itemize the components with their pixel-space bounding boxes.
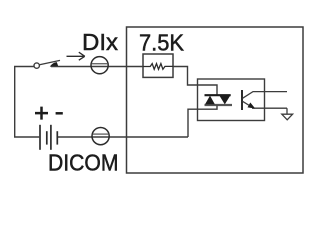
drive unit enclosure box	[127, 27, 304, 173]
wire: switch to resistor (through DIx terminal)	[51, 66, 143, 68]
battery polarity -	[56, 112, 63, 115]
wire: bottom row battery to junction (through DICOM terminal)	[57, 136, 188, 138]
phototransistor Q1 base bar	[241, 90, 243, 110]
LED pair bottom rail	[205, 104, 233, 106]
LED pair top rail	[205, 94, 231, 96]
LED D1 (up triangle)	[205, 96, 215, 105]
switch contact wedge	[50, 62, 59, 67]
emitter arrowhead	[248, 103, 256, 109]
ground symbol	[282, 114, 293, 120]
optocoupler U1 body	[198, 79, 265, 121]
phototransistor emitter + output wire	[243, 101, 288, 108]
switch lever	[40, 60, 61, 64]
wire: left loop (top row, left vertical, bottom row to battery)	[15, 67, 40, 138]
phototransistor collector + output wire	[243, 92, 288, 99]
svg-text:7.5K: 7.5K	[139, 29, 185, 55]
LED D2 (down triangle)	[219, 96, 230, 105]
resistor R1 7.5K (boxed zigzag)	[143, 54, 173, 77]
current direction arrow	[67, 52, 85, 60]
wire: LED bottom rail to DICOM row	[188, 106, 217, 138]
battery B1 plates	[39, 125, 41, 150]
battery polarity +	[35, 107, 48, 120]
svg-text:DICOM: DICOM	[48, 150, 119, 176]
svg-text:DIx: DIx	[82, 29, 119, 55]
switch S (pivot circle)	[34, 63, 39, 68]
terminal DIx (circle with bar)	[91, 57, 108, 74]
terminal DICOM (circle with bar)	[92, 128, 109, 145]
wire: emitter to ground	[286, 108, 288, 114]
wire: resistor to optocoupler LED top	[173, 67, 217, 96]
